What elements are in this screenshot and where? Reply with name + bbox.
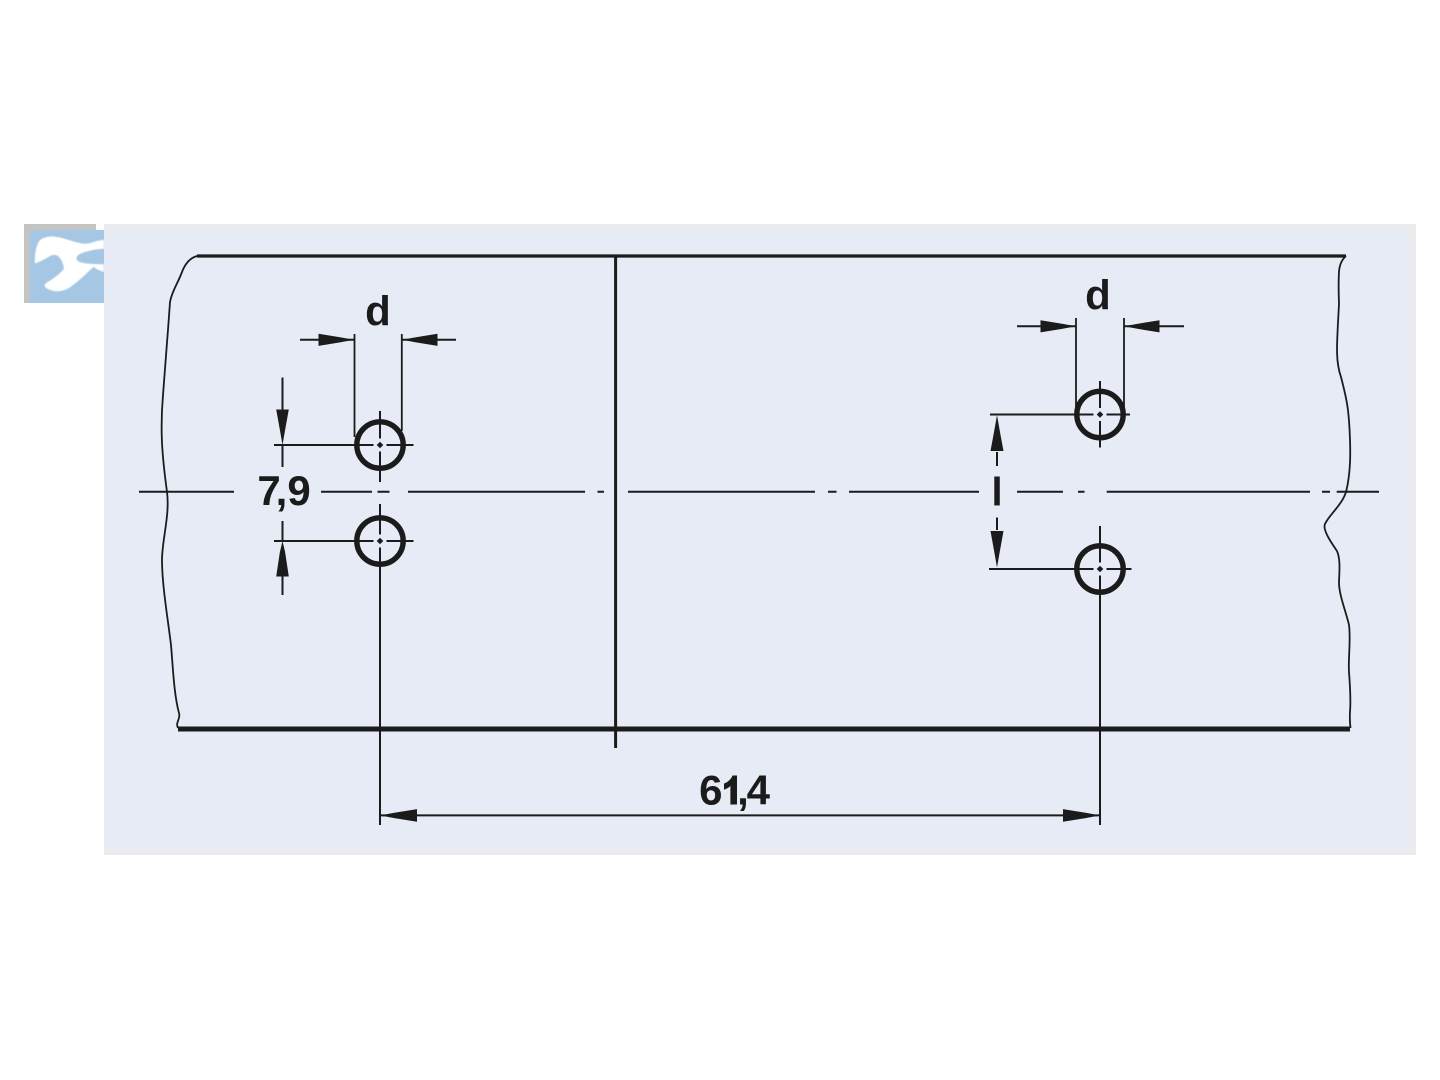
center dot hole left lower bbox=[377, 538, 384, 545]
center dot hole right upper bbox=[1097, 411, 1104, 418]
vertical divider bbox=[614, 255, 617, 748]
arrowhead l up bbox=[991, 415, 1004, 451]
left lower hole horizontal centerline bbox=[274, 540, 414, 542]
svg-text:d: d bbox=[365, 288, 391, 335]
part bottom edge bbox=[178, 727, 1350, 732]
arrowhead l down bbox=[991, 531, 1004, 568]
svg-text:l: l bbox=[991, 471, 1002, 515]
main horizontal centerline bbox=[139, 491, 1379, 493]
left wavy break edge bbox=[162, 256, 197, 728]
dimension l right: vertical line pieces bbox=[996, 452, 998, 530]
svg-text:4: 4 bbox=[747, 767, 771, 814]
dimension 61,4: line bbox=[380, 814, 1100, 816]
dimension d right: line bbox=[1017, 325, 1184, 327]
hole circle right upper bbox=[1077, 391, 1123, 437]
right upper hole horizontal centerline bbox=[990, 414, 1130, 416]
dimension d left: extension lines bbox=[355, 334, 402, 437]
left upper hole horizontal centerline bbox=[274, 444, 414, 446]
center dot hole left upper bbox=[377, 442, 384, 449]
dimension d left: line bbox=[300, 339, 456, 341]
arrowhead 61,4 right bbox=[1063, 809, 1100, 822]
right holes vertical centerline + extension bbox=[1099, 381, 1101, 825]
dimension 7,9: vertical line pieces bbox=[282, 378, 284, 596]
arrowhead d-left pointing left bbox=[402, 334, 438, 346]
arrowhead d-right pointing right bbox=[1041, 320, 1077, 332]
svg-text:9: 9 bbox=[287, 467, 310, 514]
svg-text:,: , bbox=[276, 467, 288, 514]
wrench icon bbox=[35, 237, 104, 292]
svg-text:6: 6 bbox=[699, 767, 722, 814]
hole circle left lower bbox=[357, 518, 403, 564]
svg-text:d: d bbox=[1085, 272, 1111, 319]
arrowhead 61,4 left bbox=[380, 809, 417, 822]
hole circle right lower bbox=[1077, 546, 1123, 592]
center dot hole right lower bbox=[1097, 566, 1104, 573]
logo gray square bbox=[24, 224, 96, 303]
arrowhead 7,9 up bbox=[276, 541, 289, 577]
right wavy break edge bbox=[1324, 256, 1350, 728]
hole circle left upper bbox=[357, 422, 403, 468]
arrowhead d-right pointing left bbox=[1124, 320, 1160, 332]
arrowhead d-left pointing right bbox=[319, 334, 355, 346]
dimension d right: extension lines bbox=[1076, 318, 1124, 410]
right lower hole horizontal centerline bbox=[989, 568, 1132, 570]
panel lavender background bbox=[104, 230, 1409, 849]
logo blue square with wrench icon bbox=[30, 230, 104, 303]
part top edge bbox=[197, 254, 1346, 257]
arrowhead 7,9 down bbox=[276, 410, 289, 446]
left holes vertical centerline + extension bbox=[379, 411, 381, 825]
panel gray border underlay bbox=[104, 224, 1416, 855]
